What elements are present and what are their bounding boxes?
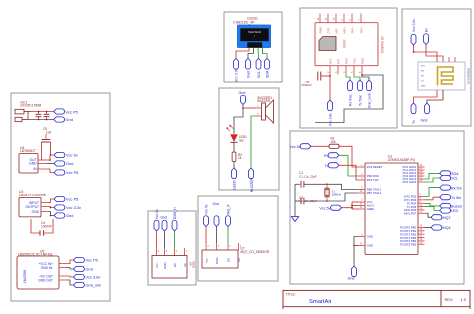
svg-text:MIC-: MIC- [334, 27, 338, 33]
svg-text:Gnd: Gnd [66, 117, 73, 122]
net flag Rx 5m [440, 185, 462, 190]
svg-text:SDA: SDA [266, 70, 270, 78]
net flag Vcc 5v (DSM) [154, 209, 159, 231]
wire U3 GND to Gnd [48, 212, 54, 216]
wire TXD [354, 75, 360, 81]
wire T1 to LED [425, 207, 440, 211]
wire DSM vcc [156, 231, 158, 248]
wire OLED SDA [263, 48, 268, 59]
resistor R2 1k [232, 152, 242, 162]
svg-text:Vcc 3.3v: Vcc 3.3v [235, 68, 239, 82]
net flag SDA (OLED) [265, 58, 270, 78]
capacitor C4 1000nF [31, 219, 53, 236]
wire DSM signal [174, 231, 176, 248]
svg-text:Tx: Tx [412, 120, 416, 124]
svg-text:LM2596: LM2596 [23, 270, 27, 283]
svg-text:DSM: DSM [192, 261, 196, 268]
net flag Vcc P5 (U5) [74, 257, 98, 262]
svg-text:red: red [239, 138, 244, 142]
svg-text:Gnd: Gnd [86, 267, 93, 272]
net flag Gnd (ESP) [421, 103, 430, 123]
svg-text:GND: GND [367, 235, 373, 239]
svg-text:Gnd_com: Gnd_com [368, 93, 372, 108]
svg-text:D0: D0 [227, 258, 231, 262]
svg-text:GND OUT: GND OUT [38, 278, 53, 282]
svg-text:LED: LED [451, 209, 459, 213]
svg-text:Vcc 5v: Vcc 5v [319, 206, 330, 210]
net flag En (ESP) [424, 28, 429, 45]
svg-text:AREF: AREF [367, 207, 375, 211]
svg-text:RING: RING [318, 27, 322, 34]
wire Vcc to R1 [311, 145, 329, 147]
wire U5 IN- to Gnd [66, 268, 74, 270]
svg-text:PC5 ADC5: PC5 ADC5 [403, 180, 417, 184]
wire buzzer pin 2 to BUZZER flag [251, 116, 256, 168]
svg-text:GLED: GLED [233, 180, 237, 190]
svg-text:Gnd: Gnd [247, 71, 251, 78]
svg-text:2000uF: 2000uF [302, 83, 312, 87]
wire Tx to PD1 [339, 165, 358, 180]
wire DSM gnd [164, 231, 166, 248]
net flag Vcc 3.3v (ESP) [411, 19, 416, 45]
wire PC4 to SDA [425, 173, 440, 179]
frame MQ7 sensor section [198, 196, 278, 281]
net flag Gnd (MQ7) [213, 202, 220, 227]
display OLED1 0.96OLED_SP [233, 17, 271, 48]
net flag Gnd (U4) [54, 161, 73, 166]
wire OLED GND [248, 48, 254, 59]
net flag Vcc 5v (U4) [54, 152, 78, 157]
wire R1 to RESET [339, 146, 358, 167]
wire MCU GND [354, 237, 358, 267]
svg-text:Vcc 5v: Vcc 5v [155, 209, 159, 219]
svg-text:Gnd_sim: Gnd_sim [86, 283, 102, 288]
net flag Tx (MCU) [324, 163, 339, 168]
svg-text:MIC+: MIC+ [342, 26, 346, 33]
wire PB0 to MQ4 [425, 227, 432, 229]
frame buzzer-LED section [219, 88, 279, 190]
svg-text:MQ4: MQ4 [443, 226, 451, 230]
svg-text:SDA: SDA [451, 172, 459, 176]
svg-text:A0: A0 [237, 258, 241, 262]
svg-text:D9: D9 [173, 263, 177, 267]
net flag GLED [232, 168, 237, 190]
crystal Y1 16MHz [324, 184, 341, 201]
net flag DSM (DSM) [172, 207, 177, 231]
svg-text:TITLE:: TITLE: [286, 292, 296, 296]
svg-text:C1_Ca_22pF: C1_Ca_22pF [299, 174, 317, 178]
frame MCU section [290, 131, 464, 284]
svg-text:10k: 10k [331, 140, 337, 144]
wire Gnd to LED chain [234, 105, 243, 135]
wire U4 GND to Gnd [46, 163, 54, 165]
svg-text:1000nF: 1000nF [41, 224, 52, 228]
svg-text:Gnd: Gnd [161, 216, 168, 220]
svg-text:SPK+: SPK+ [359, 26, 363, 34]
net flag Rx (MCU) [324, 153, 339, 158]
wire Vcc to VCC/AVCC/AREF [342, 207, 353, 209]
svg-text:SPK-: SPK- [350, 27, 354, 34]
wire T0 to Buzzer [425, 203, 440, 206]
wire GND [362, 75, 369, 81]
net flag LED [440, 208, 459, 213]
capacitor C5 1uF [42, 127, 52, 142]
net flag BUZZER [249, 168, 254, 192]
svg-text:16MHz: 16MHz [332, 193, 342, 197]
frame OLED section [224, 12, 282, 82]
MCU U1 ATMEGA328P-PU [358, 154, 425, 254]
buzzer BUZZER1 [256, 96, 274, 123]
svg-text:Gnd: Gnd [421, 119, 428, 123]
sensor U7 MQ7_CO_SENSOR [202, 243, 270, 268]
svg-text:SCL: SCL [451, 177, 458, 181]
svg-text:AIN1 PD7: AIN1 PD7 [404, 211, 417, 215]
svg-text:DC005-2.5MM: DC005-2.5MM [21, 104, 42, 108]
wire U3 OUTPUT to Vcc 3.3v [48, 207, 54, 208]
svg-text:MQ7: MQ7 [443, 216, 451, 220]
svg-text:ATMEGA328P-PU: ATMEGA328P-PU [388, 158, 416, 162]
net flag MQ7 (MQ7) [226, 204, 231, 226]
net flag Gnd (DC input) [54, 117, 73, 122]
svg-text:LM1117T-3.3/NOPB: LM1117T-3.3/NOPB [19, 193, 46, 197]
sensor U6 DSM501A [152, 248, 196, 278]
svg-text:GND IN-: GND IN- [41, 266, 53, 270]
svg-text:U8 SIM800L: U8 SIM800L [380, 36, 384, 54]
wire OLED SCL [257, 48, 260, 59]
svg-text:REV:: REV: [445, 297, 454, 302]
wire R2 to GLED flag [233, 162, 235, 169]
svg-text:MQ7_CO_SENSOR: MQ7_CO_SENSOR [241, 250, 270, 254]
svg-text:Gnd: Gnd [348, 277, 355, 281]
net flag SCL [440, 175, 458, 180]
wire U4 IN to Vcc P5 [46, 169, 54, 173]
svg-text:SmartAir: SmartAir [309, 299, 332, 305]
net flag Gnd (U3) [54, 213, 73, 218]
net flag SDA [440, 171, 459, 176]
svg-text:Vcc: Vcc [205, 258, 209, 263]
svg-text:Tx 5mc: Tx 5mc [359, 95, 363, 106]
svg-text:PB7 XTAL2: PB7 XTAL2 [367, 191, 382, 195]
svg-text:Vcc P5: Vcc P5 [86, 258, 98, 263]
capacitor C2 22pF [295, 196, 317, 205]
net flag Gnd (U5) [74, 266, 93, 271]
svg-text:GND: GND [421, 86, 426, 88]
svg-text:Vcc P5: Vcc P5 [66, 170, 78, 175]
svg-text:RXD: RXD [344, 58, 348, 64]
wire ESP en [426, 45, 443, 63]
frame power-supply section [11, 93, 110, 301]
wire AIN1 to MQ7 [425, 213, 432, 217]
capacitor C3 [36, 111, 42, 121]
net flag Vcc 5v (MCU power) [319, 205, 341, 210]
net flag Vcc 3.8v (GSM) [328, 100, 333, 126]
svg-text:Gnd: Gnd [239, 91, 246, 95]
svg-text:1uF: 1uF [46, 130, 52, 134]
net flag Vcc P5 (DC input) [54, 109, 78, 115]
net flag Gnd_sim (U5) [74, 282, 102, 287]
connector DC1 DC005-2.5MM barrel jack [15, 101, 42, 122]
wire Gnd junction to buzzer pin 1 [243, 107, 256, 109]
wire C5 loop [42, 142, 46, 160]
svg-text:Vcc: Vcc [155, 263, 159, 268]
ground (crystal) [291, 214, 298, 222]
net flag Vcc 5v (MQ7) [204, 204, 209, 226]
net flag MQ4 [431, 225, 451, 230]
wire ESP vcc [414, 45, 438, 62]
wire Rx to PD0 [339, 155, 358, 176]
svg-text:SCL: SCL [257, 71, 261, 78]
net flag Tx 5m [440, 195, 462, 200]
net flag Gnd (buzzer) [239, 91, 246, 104]
svg-text:Gnd: Gnd [213, 202, 220, 206]
net flag Tx (ESP) [411, 103, 416, 124]
svg-text:TXD: TXD [352, 58, 356, 64]
wire PC5 to SCL [425, 178, 440, 182]
svg-text:GND: GND [32, 210, 40, 214]
svg-text:Vcc 5v: Vcc 5v [205, 204, 209, 214]
svg-text:PC6 RESET: PC6 RESET [367, 165, 383, 169]
module U5 LM2596 DC DC HW-411 [17, 250, 66, 290]
net flag Gnd_com (GSM) [367, 80, 372, 108]
wire ESP gnd [427, 90, 443, 103]
svg-text:Vcc 3.3v: Vcc 3.3v [66, 205, 81, 210]
svg-text:En: En [425, 28, 429, 32]
module U8 SIM800L [315, 14, 384, 75]
title block [283, 290, 470, 314]
wire DC1 to Gnd [28, 119, 54, 121]
svg-text:DSM_H: DSM_H [173, 207, 177, 219]
svg-text:RST: RST [336, 58, 340, 64]
svg-text:GND: GND [215, 258, 219, 264]
wire LED to R2 [233, 142, 235, 152]
net flag Vcc P5 (U3) [54, 196, 78, 201]
capacitor C1 22pF [295, 171, 317, 187]
capacitor C9 2000uF [302, 72, 331, 87]
net flag MQ7 (MCU) [431, 215, 451, 220]
svg-text:GND: GND [29, 162, 37, 166]
svg-text:Vcc 3.3v: Vcc 3.3v [412, 19, 416, 32]
svg-text:Vcc 5v: Vcc 5v [290, 145, 301, 149]
svg-text:Hello World: Hello World [248, 31, 261, 34]
svg-text:MQ_I7: MQ_I7 [227, 204, 231, 214]
regulator U3 LM1117T-3.3/NOPB [19, 190, 48, 217]
svg-text:Gnd: Gnd [66, 161, 73, 166]
LED LED1 red [226, 125, 247, 143]
svg-text:U2 ESP8266: U2 ESP8266 [467, 67, 471, 84]
svg-text:GND: GND [367, 244, 373, 248]
wire MQ7 signal [227, 227, 229, 244]
svg-text:PCINT5 PB5: PCINT5 PB5 [400, 242, 416, 246]
wire DC1 to Vcc P5 [31, 111, 54, 113]
svg-text:LM7805CT: LM7805CT [20, 149, 36, 153]
regulator U4 LM7805CT [19, 146, 46, 173]
wire RXD [346, 75, 350, 81]
wire INT0 to Rx 5m [425, 188, 440, 197]
net flag Vcc P5 (U4) [54, 170, 78, 175]
svg-text:GSM: GSM [343, 40, 347, 48]
wire OLED VCC [236, 48, 249, 59]
svg-text:Vcc 5v: Vcc 5v [66, 153, 78, 158]
wire XTAL2 net [304, 193, 358, 201]
svg-text:BUZZER: BUZZER [258, 99, 271, 103]
net flag Vcc 3.3v (U3) [54, 205, 81, 210]
net flag Vcc 3.3v (OLED) [234, 58, 239, 82]
svg-text:GND: GND [360, 58, 364, 64]
wire XTAL1 net [304, 184, 358, 189]
resistor R1 10k [329, 137, 339, 149]
frame GSM section [300, 8, 397, 128]
wire U3 INPUT to Vcc P5 [48, 199, 54, 203]
net flag Gnd (MCU) [348, 266, 357, 281]
svg-text:Tx 5m: Tx 5m [451, 196, 461, 200]
capacitor C6 [44, 111, 50, 121]
wire U4 OUT to Vcc 5v [46, 155, 50, 160]
net flag Vcc 3.8v (U5) [74, 274, 101, 279]
net flag Gnd (DSM) [161, 216, 168, 231]
svg-text:BUZZER: BUZZER [250, 178, 254, 192]
svg-text:1k: 1k [238, 156, 242, 160]
wire MQ7 vcc [205, 227, 207, 244]
module U2 ESP8266 with PCB antenna [418, 57, 471, 90]
frame WiFi section [402, 9, 471, 126]
wire U5 IN+ to Vcc P5 [66, 260, 74, 264]
svg-text:Vcc 3.8v: Vcc 3.8v [86, 275, 101, 280]
wire VCC to Vcc 3.8v [329, 75, 331, 101]
svg-text:Gnd: Gnd [66, 213, 73, 218]
net flag Vcc 5v (reset pullup) [290, 144, 312, 149]
svg-text:Rx 5m: Rx 5m [451, 186, 462, 190]
svg-text:Buzzer: Buzzer [451, 205, 463, 209]
wire U5 OUT- to Gnd_sim [66, 280, 74, 285]
svg-text:OUTPUT: OUTPUT [25, 205, 39, 209]
svg-text:DTR: DTR [326, 28, 330, 34]
svg-text:PD1 TXD: PD1 TXD [367, 178, 379, 182]
svg-text:A9: A9 [183, 263, 187, 267]
svg-text:Vcc 3.8v: Vcc 3.8v [329, 113, 333, 126]
wire crystal gnd [294, 184, 296, 214]
svg-text:GND: GND [163, 263, 167, 269]
wire U5 OUT+ to Vcc 3.8v [66, 276, 74, 277]
wire MQ7 gnd [216, 227, 218, 244]
net flag Rx 5mc (GSM) [348, 80, 353, 106]
net flag Tx 5mc (GSM) [358, 80, 363, 106]
net flag Gnd (OLED) [246, 58, 251, 78]
net flag Buzzer [440, 203, 464, 208]
svg-text:1.0: 1.0 [461, 297, 467, 302]
net flag SCL (OLED) [256, 58, 261, 78]
wire ESP tx [414, 90, 438, 103]
wire INT1 to Tx 5m [425, 197, 440, 200]
frame dust sensor section [148, 211, 196, 285]
svg-text:Vcc P5: Vcc P5 [66, 109, 78, 114]
svg-text:Rx 5mc: Rx 5mc [349, 94, 353, 106]
wire GND return path [315, 75, 383, 123]
svg-text:0.96OLED_SP: 0.96OLED_SP [233, 20, 255, 24]
svg-text:VCC: VCC [328, 58, 332, 64]
svg-text:Vcc P5: Vcc P5 [66, 197, 78, 202]
